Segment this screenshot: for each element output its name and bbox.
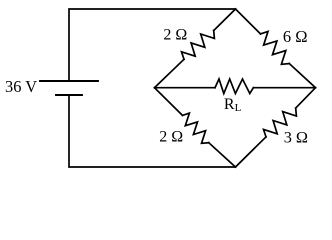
resistor R3 2ohm (183, 113, 209, 143)
wire left node to R3 (155, 88, 183, 116)
wire top (69, 9, 236, 81)
svg-text:2 Ω: 2 Ω (163, 26, 187, 43)
wire left node to RL (155, 87, 216, 89)
wire bottom (69, 95, 236, 167)
svg-text:6 Ω: 6 Ω (283, 27, 308, 46)
svg-text:36 V: 36 V (5, 77, 37, 96)
wire top node to R2 (236, 9, 261, 34)
resistor R1 2ohm (182, 31, 215, 60)
battery V1 bottom plate (56, 94, 82, 96)
resistor R2 6ohm (261, 31, 290, 64)
svg-text:3 Ω: 3 Ω (284, 128, 308, 147)
battery V1 top plate (40, 80, 98, 82)
resistor RL (215, 79, 253, 94)
svg-text:2 Ω: 2 Ω (159, 128, 183, 145)
wire RL to right node (253, 87, 315, 89)
wire top node to R1 (214, 9, 236, 31)
wire bottom node to R4 (236, 137, 267, 167)
wire R4 to right node (296, 88, 316, 108)
svg-text:RL: RL (224, 96, 242, 114)
wire R3 to bottom node (209, 143, 236, 167)
wire R1 to left node (155, 59, 185, 87)
resistor R4 3ohm (264, 108, 297, 137)
wire R2 to right node (289, 64, 315, 88)
